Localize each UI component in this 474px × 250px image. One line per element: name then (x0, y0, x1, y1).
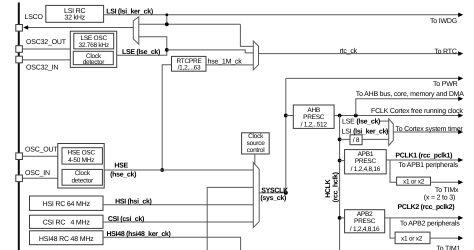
pin OSC32_OUT (16, 46, 23, 53)
svg-text:PRESC: PRESC (355, 158, 377, 165)
RTCPRE prescaler box (172, 56, 207, 71)
wire lsi_ker_ck to IWDG (104, 14, 460, 16)
wire hsi48_ker_ck (103, 237, 241, 250)
HSI RC oscillator box (30, 196, 104, 210)
chip boundary line (18, 3, 20, 250)
svg-text:FCLK Cortex free running clock: FCLK Cortex free running clock (371, 107, 463, 115)
svg-text:4-50 MHz: 4-50 MHz (68, 157, 94, 164)
arrowhead to TIMx (458, 180, 463, 185)
svg-text:OSC32_IN: OSC32_IN (26, 64, 58, 71)
svg-text:Clock: Clock (248, 133, 264, 140)
wire lsi stub to systimer mux (386, 130, 389, 132)
LSI RC oscillator box (46, 5, 104, 22)
pin OSC_IN (16, 175, 23, 182)
wire x1x2 apb1 output (431, 181, 460, 183)
svg-text:SYSCLK: SYSCLK (261, 187, 288, 194)
LSE OSC box (74, 33, 114, 49)
wire osc32_out pin to lse box (22, 48, 70, 50)
svg-text:LSCO: LSCO (25, 14, 44, 21)
svg-text:PCLK2 (rcc_pclk2): PCLK2 (rcc_pclk2) (398, 203, 455, 211)
wire timx branch (390, 160, 397, 182)
svg-text:To APB1 peripherals: To APB1 peripherals (398, 161, 458, 169)
LSCO mux (133, 17, 139, 45)
svg-text:/ 1,2,4,8,16: / 1,2,4,8,16 (351, 166, 381, 173)
wire to PWR (286, 77, 460, 79)
wire ahb presc input (286, 115, 293, 117)
wire tim1 branch (390, 218, 395, 238)
svg-text:To TIM1: To TIM1 (436, 245, 460, 250)
node lse junction (165, 48, 169, 52)
svg-text:rtc_ck: rtc_ck (340, 47, 358, 55)
svg-text:To AHB bus, core, memory and D: To AHB bus, core, memory and DMA (356, 90, 465, 98)
wire lse stub to systimer mux (380, 120, 389, 122)
wire lsi drop to lsco/rtc branch (166, 15, 168, 24)
svg-text:32.768 kHz: 32.768 kHz (79, 42, 109, 49)
wire div8 to systimer mux (362, 138, 389, 140)
svg-text:APB1: APB1 (358, 151, 374, 158)
wire osc_in pin to hse box (22, 177, 57, 179)
LSE oscillator outer box (70, 31, 116, 67)
svg-text:x1 or x2: x1 or x2 (401, 236, 423, 243)
arrowhead PCLK2 (458, 216, 463, 221)
svg-text:LSE OSC: LSE OSC (80, 35, 107, 42)
svg-text:LSE (lse_ck): LSE (lse_ck) (122, 48, 160, 56)
svg-text:HCLK: HCLK (325, 179, 332, 197)
arrowhead to IWDG (458, 13, 463, 18)
wire lsi branch to lsco mux and rtc mux (139, 23, 241, 25)
node to-AHB branch junction (354, 114, 358, 118)
pin LSCO (16, 25, 23, 32)
Cortex system timer mux (389, 119, 394, 146)
svg-text:PCLK1 (rcc_pclk1): PCLK1 (rcc_pclk1) (395, 152, 452, 160)
svg-text:HSI (hsi_ck): HSI (hsi_ck) (115, 198, 151, 206)
svg-text:HSE: HSE (114, 162, 128, 169)
wire hclk vertical distribution (339, 116, 341, 250)
node hclk vertical junction (338, 114, 342, 118)
wire pclk2 (385, 217, 460, 219)
RTC mux (253, 41, 258, 70)
wire sysclk output (259, 192, 286, 194)
svg-text:To Cortex system timer: To Cortex system timer (395, 125, 463, 133)
svg-text:PRESC: PRESC (303, 114, 325, 121)
wire lse_ck from oscillator (117, 37, 167, 55)
x1 or x2 multiplier box (TIM1 APB2) (395, 232, 430, 244)
svg-text:APB2: APB2 (357, 211, 373, 218)
svg-text:To APB2 peripherals: To APB2 peripherals (400, 220, 460, 228)
svg-text:HSI48 (hsi48_ker_ck): HSI48 (hsi48_ker_ck) (107, 230, 171, 238)
svg-text:/ 1,2,..512: / 1,2,..512 (301, 121, 328, 128)
clock source control box (242, 133, 270, 154)
wire to cortex system timer (393, 131, 459, 133)
CSI RC oscillator box (30, 215, 104, 228)
wire rtc_ck to RTC (259, 53, 460, 55)
wire hclk / FCLK (334, 115, 459, 117)
node lsi line junction (165, 13, 168, 16)
svg-text:PRESC: PRESC (354, 218, 376, 225)
system clock mux (253, 162, 259, 227)
svg-text:CSI RC 4 MHz: CSI RC 4 MHz (43, 219, 91, 226)
svg-text:source: source (247, 140, 266, 147)
HSE OSC box (62, 148, 102, 164)
APB2 PRESC box (345, 210, 385, 233)
wire hse_1M_ck to rtc mux (207, 64, 254, 66)
wire lsi branch drop to rtc mux (240, 24, 253, 46)
svg-text:/1,2,..,63: /1,2,..,63 (178, 64, 201, 71)
arrowhead to TIM1 (458, 236, 463, 241)
wire pclk1 (386, 159, 459, 161)
svg-text:OSC_OUT: OSC_OUT (25, 147, 58, 154)
svg-text:LSI (lsi_ker_ck): LSI (lsi_ker_ck) (342, 127, 389, 135)
wire osc_out pin to hse box (22, 155, 57, 157)
svg-text:LSE (lse_ck): LSE (lse_ck) (342, 118, 380, 126)
svg-text:detector: detector (71, 178, 94, 185)
svg-text:To RTC: To RTC (434, 48, 457, 55)
svg-text:OSC32_OUT: OSC32_OUT (26, 39, 67, 46)
wire clock source control to mux (254, 154, 256, 164)
svg-text:hse_1M_ck: hse_1M_ck (208, 57, 243, 65)
wire hsi_ck to system mux (103, 204, 253, 206)
arrowhead into LSCO pin (23, 25, 28, 30)
HSE oscillator outer box (58, 144, 104, 189)
wire x1x2 apb2 output (430, 237, 460, 239)
x1 or x2 multiplier box (TIMx APB1) (397, 177, 431, 185)
svg-text:(hse_ck): (hse_ck) (110, 170, 136, 178)
arrowhead FCLK (458, 113, 463, 118)
APB1 PRESC box (345, 150, 387, 174)
wire lse to rtc mux (167, 50, 254, 53)
wire lsco mux output to pin (27, 27, 134, 29)
node hse rtcpre junction (160, 168, 164, 172)
wire apb2 presc input (340, 217, 345, 219)
svg-text:/ 1,2,4,8,16: / 1,2,4,8,16 (350, 226, 380, 233)
svg-text:(sys_ck): (sys_ck) (260, 194, 286, 202)
AHB PRESC box (293, 105, 334, 128)
svg-text:(x = 2 to 3): (x = 2 to 3) (424, 193, 455, 201)
HSI48 RC oscillator box (30, 231, 104, 245)
wire hse_ck to system mux (104, 169, 253, 171)
clock detector box (HSE) (62, 169, 102, 185)
wire sysclk riser (285, 78, 287, 192)
svg-text:OSC_IN: OSC_IN (25, 170, 50, 177)
node ahb presc input junction (284, 114, 288, 118)
pin OSC32_IN (16, 56, 23, 63)
wire to AHB bus riser (356, 99, 460, 116)
wire pll feed rising to system mux input 2 (207, 187, 253, 250)
wire apb1 presc input (340, 160, 345, 162)
svg-text:x1 or x2: x1 or x2 (403, 178, 425, 185)
wire csi_ck to system mux (103, 221, 253, 223)
svg-text:/ 8: / 8 (353, 137, 360, 144)
clock detector box (LSE) (73, 51, 113, 64)
arrowhead PCLK1 (458, 158, 463, 163)
svg-text:LSI (lsi_ker_ck): LSI (lsi_ker_ck) (106, 8, 153, 16)
wire osc32_in pin to lse box (22, 59, 70, 61)
svg-text:Clock: Clock (75, 170, 91, 177)
svg-text:CSI (csi_ck): CSI (csi_ck) (108, 215, 144, 223)
svg-text:control: control (247, 147, 266, 154)
node lsi branch junction (165, 22, 169, 26)
arrowhead to Cortex system timer (458, 130, 463, 135)
svg-text:32 kHz: 32 kHz (64, 14, 85, 22)
svg-text:HSI RC 64 MHz: HSI RC 64 MHz (43, 201, 91, 208)
arrowhead to PWR (458, 76, 463, 81)
wire hse_ck feed to rtcpre (162, 65, 171, 170)
node apb1 input junction (338, 159, 342, 163)
svg-text:detector: detector (83, 59, 106, 66)
node apb2 input junction (338, 216, 342, 220)
wire hclk to div8 (340, 138, 350, 140)
svg-text:HSI48 RC 48 MHz: HSI48 RC 48 MHz (39, 236, 94, 243)
svg-text:To IWDG: To IWDG (430, 18, 457, 25)
node hclk div8 junction (338, 138, 342, 142)
node sysclk corner (284, 191, 288, 195)
svg-text:HSE OSC: HSE OSC (67, 150, 95, 157)
divide-by-8 box (350, 135, 362, 145)
svg-text:(rcc_hclk): (rcc_hclk) (331, 172, 339, 202)
pin OSC_OUT (16, 153, 23, 160)
svg-text:To TIMx: To TIMx (435, 187, 459, 194)
arrowhead to AHB bus (458, 96, 463, 101)
svg-text:To PWR: To PWR (433, 81, 458, 88)
arrowhead to RTC (458, 51, 463, 56)
